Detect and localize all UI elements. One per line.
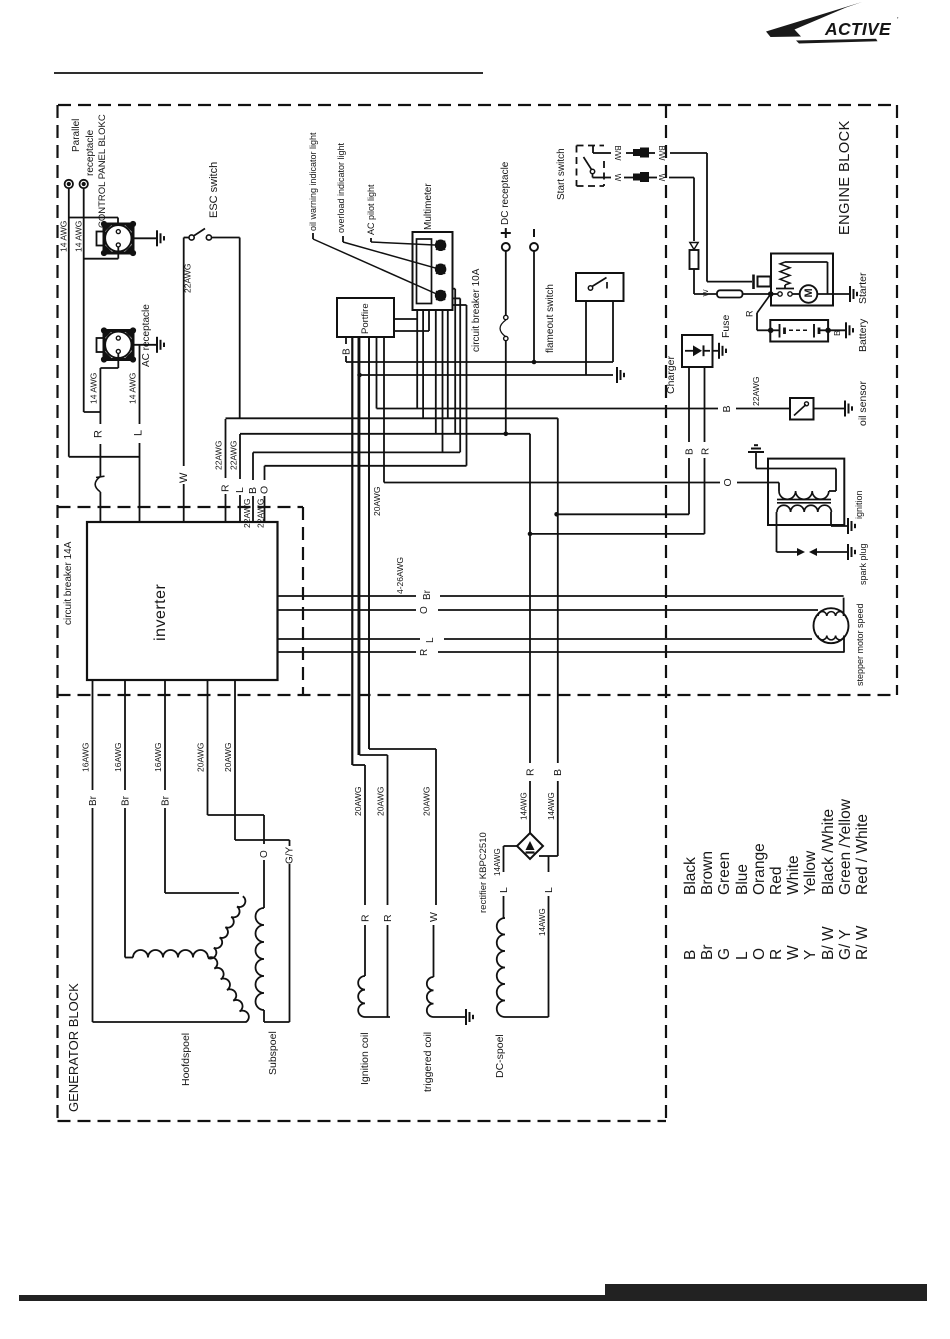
svg-text:B: B — [721, 405, 733, 412]
control panel block dashed outline (top edge) — [58, 104, 897, 106]
svg-text:Yellow: Yellow — [802, 850, 819, 895]
flameout right wire to bus362 — [612, 301, 614, 362]
relay coil bottom link — [784, 285, 786, 289]
wire gen R2 step — [387, 755, 389, 905]
wire B/W with connectors — [604, 152, 611, 154]
svg-text:22AWG: 22AWG — [256, 499, 266, 528]
parallel receptacle terminal 2 — [80, 180, 88, 188]
earth at bus375 end — [616, 367, 618, 383]
ESC switch blade — [194, 229, 206, 237]
svg-text:O: O — [259, 850, 270, 858]
wire W to engine — [647, 177, 657, 179]
receptacle 2 side tab — [97, 338, 105, 352]
svg-text:oil warning indicator light: oil warning indicator light — [308, 132, 318, 231]
ignition primary winding — [779, 491, 829, 499]
svg-text:G: G — [716, 948, 733, 960]
generator block bottom dashed edge — [58, 1120, 667, 1122]
triggered coil winding — [427, 977, 434, 1017]
svg-text:R: R — [419, 649, 430, 656]
wire B to rectifier — [557, 418, 559, 763]
junction portfire wire3 bus375 — [357, 373, 362, 378]
wire B/W down to solenoid — [706, 153, 708, 282]
svg-text:B: B — [832, 330, 842, 336]
receptacle 1 bottom pin wire to terminal2 net — [117, 247, 119, 259]
svg-text:B: B — [342, 348, 353, 355]
svg-text:Br: Br — [161, 795, 172, 806]
wire R to rectifier — [529, 434, 531, 763]
svg-text:B/ W: B/ W — [820, 926, 837, 960]
wire terminal2 jog to R net — [84, 411, 101, 413]
svg-text:L: L — [425, 637, 436, 643]
ignition box — [768, 459, 844, 525]
starter solenoid box — [758, 277, 771, 287]
resistor (W line) — [690, 250, 699, 269]
rectifier KBPC2510 diamond — [517, 833, 543, 859]
svg-text:B/W: B/W — [657, 145, 666, 161]
svg-text:W: W — [657, 174, 666, 182]
wire L 22AWG to inverter — [239, 434, 241, 479]
multimeter LED 2 — [436, 264, 446, 274]
ground triggered coil — [465, 1009, 467, 1025]
svg-text:Green: Green — [716, 852, 733, 895]
svg-text:O: O — [722, 478, 734, 486]
wire R 22AWG to inverter — [225, 419, 227, 478]
svg-text:W: W — [428, 912, 440, 922]
svg-text:ACTIVE: ACTIVE — [824, 19, 892, 39]
leader overload — [342, 236, 344, 242]
wire R out y652 — [278, 651, 417, 653]
rectifier left arm 14AWG — [504, 845, 518, 847]
wire B/W to engine — [647, 152, 655, 154]
stepper motor circle — [814, 608, 849, 643]
svg-text:ignition: ignition — [854, 490, 864, 519]
svg-text:White: White — [785, 855, 802, 895]
hoofdspoel lower diagonal winding — [208, 957, 249, 1022]
svg-text:DC-spoel: DC-spoel — [494, 1034, 506, 1078]
wire1 bottom jog to L net — [69, 456, 140, 458]
starter relay box — [771, 254, 833, 306]
svg-text:AC receptacle: AC receptacle — [141, 304, 152, 367]
wire L vertical — [139, 345, 141, 424]
svg-text:Fuse: Fuse — [720, 314, 732, 338]
ignition coil left winding — [358, 976, 365, 1017]
svg-text:Portfire: Portfire — [360, 303, 371, 334]
oil sensor ground wire — [814, 408, 846, 410]
svg-text:20AWG: 20AWG — [196, 743, 206, 772]
wire gen R2 — [357, 337, 359, 755]
start switch blade — [584, 157, 592, 170]
svg-text:circuit breaker 14A: circuit breaker 14A — [63, 541, 74, 625]
ground battery — [845, 322, 847, 338]
junction DC- bus362 — [532, 360, 537, 365]
wire W down through resistor — [693, 178, 695, 242]
mm wire 429 — [428, 310, 430, 331]
engine block right dashed edge — [896, 105, 898, 695]
svg-text:Green /Yellow: Green /Yellow — [837, 798, 854, 895]
svg-text:G/Y: G/Y — [285, 846, 296, 864]
rectifier bottom arm to B — [539, 855, 549, 857]
wire DC+ to R link — [505, 341, 507, 434]
svg-text:flameout switch: flameout switch — [545, 284, 556, 353]
svg-text:22AWG: 22AWG — [242, 499, 252, 528]
junction DC+ on y434 — [504, 432, 509, 437]
footer thick bar — [605, 1284, 927, 1301]
battery cells — [771, 329, 780, 331]
svg-text:Blue: Blue — [734, 864, 751, 895]
svg-text:16AWG: 16AWG — [113, 743, 123, 772]
mm wire 436 — [435, 310, 437, 434]
wire B 22AWG to inverter — [252, 452, 254, 480]
portfire right link upper — [394, 318, 417, 320]
stepper wire corners — [843, 598, 845, 616]
ground at receptacle 2 — [156, 337, 158, 353]
ignition top wire — [756, 468, 836, 470]
footer thin bar — [19, 1295, 605, 1301]
svg-text:Black /White: Black /White — [820, 809, 837, 895]
svg-text:O: O — [259, 486, 271, 494]
ESC switch contacts — [189, 235, 194, 240]
circuit breaker 14A dashed box right — [302, 507, 304, 695]
wire net y434 (L link) — [240, 433, 530, 435]
wire R from starter node to battery — [757, 294, 771, 313]
wire DC- down — [533, 251, 535, 362]
svg-text:GENERATOR BLOCK: GENERATOR BLOCK — [66, 983, 81, 1112]
svg-text:B/W: B/W — [613, 145, 622, 161]
junction starter node — [768, 291, 774, 297]
svg-text:triggered coil: triggered coil — [422, 1032, 434, 1092]
start switch solid contact corner — [592, 146, 594, 154]
W feed line with fuse — [694, 293, 717, 295]
wire gen W — [368, 337, 370, 749]
svg-text:R: R — [768, 949, 785, 960]
battery terminals — [768, 328, 774, 334]
svg-text:Brown: Brown — [699, 851, 716, 895]
svg-text:rectifier KBPC2510: rectifier KBPC2510 — [478, 832, 489, 913]
svg-text:overload indicator light: overload indicator light — [336, 142, 346, 233]
ground ignition — [847, 518, 849, 534]
wire battery B to ground — [828, 329, 846, 331]
starter motor M — [800, 285, 818, 303]
svg-text:CONTROL PANEL BLOKC: CONTROL PANEL BLOKC — [97, 114, 108, 228]
svg-text:oil sensor: oil sensor — [857, 381, 869, 426]
svg-text:circuit breaker 10A: circuit breaker 10A — [471, 268, 482, 352]
svg-text:22AWG: 22AWG — [183, 264, 193, 293]
mm wire 442 — [442, 310, 444, 452]
receptacle 1 pin link to ground — [132, 237, 158, 239]
svg-text:DC receptacle: DC receptacle — [500, 161, 511, 225]
portfire right link lower — [394, 330, 429, 332]
svg-text:Br: Br — [422, 589, 433, 600]
svg-text:L: L — [734, 951, 751, 960]
wire ESC left (W) — [184, 237, 189, 239]
charger output R — [704, 367, 706, 442]
mm side wire 460 — [453, 297, 461, 299]
mm side wire 455 — [453, 288, 456, 290]
wire O 22AWG to inverter — [264, 466, 266, 480]
vertical dashed boundary x=666 — [665, 105, 667, 1121]
svg-text:14 AWG: 14 AWG — [74, 221, 84, 252]
svg-text:O: O — [751, 948, 768, 960]
wire L out y639 — [278, 638, 421, 640]
wire gen R1 — [351, 337, 353, 765]
circuit breaker 14A dashed box top — [58, 506, 304, 508]
svg-text:14AWG: 14AWG — [493, 848, 502, 876]
svg-text:4-26AWG: 4-26AWG — [395, 557, 405, 594]
wire ESC right — [212, 237, 240, 239]
svg-text:R: R — [382, 914, 394, 922]
wire gen W step — [435, 749, 437, 905]
svg-text:R: R — [701, 448, 712, 455]
flameout left wire to ground bus — [585, 301, 587, 375]
svg-text:inverter: inverter — [152, 583, 169, 641]
svg-text:20AWG: 20AWG — [353, 787, 363, 816]
leader AC pilot — [370, 238, 372, 242]
svg-text:14 AWG: 14 AWG — [59, 221, 69, 252]
charger ground — [713, 350, 720, 352]
svg-text:Charger: Charger — [665, 356, 677, 394]
svg-text:20AWG: 20AWG — [223, 743, 233, 772]
stepper upper winding — [818, 612, 844, 616]
svg-text:Ignition coil: Ignition coil — [359, 1032, 371, 1085]
svg-text:22AWG: 22AWG — [214, 441, 224, 470]
AC receptacle socket 2 — [104, 331, 133, 360]
svg-text:G/ Y: G/ Y — [837, 929, 854, 960]
svg-text:B: B — [247, 487, 259, 494]
svg-text:B: B — [685, 448, 696, 455]
subspoel winding — [256, 908, 264, 1010]
svg-text:R: R — [360, 914, 372, 922]
portfire pin wire 2 — [352, 337, 354, 765]
multimeter LED 3 — [436, 291, 446, 301]
wire terminal1 down — [68, 188, 70, 457]
svg-text:Red: Red — [768, 867, 785, 895]
multimeter inner rect — [417, 239, 432, 304]
mm side wire 466 — [453, 304, 467, 306]
header rule — [54, 72, 483, 74]
svg-text:Orange: Orange — [751, 843, 768, 895]
svg-text:O: O — [419, 606, 430, 614]
svg-text:M: M — [803, 288, 815, 297]
svg-text:Battery: Battery — [857, 318, 869, 352]
svg-text:L: L — [234, 487, 246, 493]
relay zigzag coil — [780, 262, 790, 285]
multimeter LED 1 — [436, 240, 446, 250]
svg-text:spark plug: spark plug — [858, 543, 868, 585]
svg-text:Y: Y — [802, 950, 819, 960]
wire net y418 (R link) — [226, 417, 558, 419]
spark plug wires — [776, 517, 778, 552]
portfire pin wire B — [345, 337, 347, 344]
svg-text:W: W — [785, 945, 802, 960]
wire net y466 (O link) — [265, 465, 467, 467]
svg-text:Br: Br — [699, 945, 716, 961]
ACTIVE logo swoosh — [766, 2, 862, 37]
svg-text:Hoofdspoel: Hoofdspoel — [180, 1033, 192, 1086]
oil sensor box — [790, 398, 814, 420]
wire Br out y596 — [278, 595, 417, 597]
svg-text:W: W — [178, 472, 190, 483]
portfire pin wire 6 — [383, 337, 385, 483]
parallel receptacle terminal 1 — [65, 180, 73, 188]
wire DC+ down — [505, 251, 507, 316]
svg-text:AC pilot light: AC pilot light — [366, 184, 376, 235]
wire O-line y482 (20AWG) — [384, 482, 720, 484]
receptacle 1 side tab — [97, 232, 105, 246]
inverter box — [87, 522, 278, 680]
svg-text:Start switch: Start switch — [556, 148, 567, 200]
flameout switch box — [576, 273, 624, 301]
svg-text:14 AWG: 14 AWG — [128, 373, 138, 404]
secondary ends — [776, 512, 778, 517]
Portfire box — [337, 298, 394, 337]
O line into primary — [778, 483, 780, 492]
ACTIVE logo text — [824, 19, 892, 39]
receptacle 2 ground wire — [132, 344, 158, 346]
svg-text:20AWG: 20AWG — [376, 787, 386, 816]
left dashed edge — [56, 105, 58, 1121]
ground spark plug — [847, 544, 849, 560]
wire B-line y408 to oil sensor — [377, 408, 719, 410]
wire R into inverter — [99, 492, 101, 522]
DC receptacle + terminal — [502, 243, 510, 251]
bus y362 — [346, 361, 613, 363]
svg-text:B: B — [552, 769, 564, 776]
svg-text:L: L — [133, 430, 145, 436]
circuit breaker 14A contact symbol — [95, 477, 100, 493]
wire Br1 16AWG — [92, 680, 94, 790]
svg-text:L: L — [498, 887, 510, 893]
svg-text:R: R — [93, 430, 105, 438]
svg-text:Black: Black — [682, 857, 699, 895]
svg-text:14AWG: 14AWG — [520, 792, 529, 820]
wire W with connectors — [604, 177, 611, 179]
svg-text:14AWG: 14AWG — [538, 908, 547, 936]
Charger box — [682, 335, 713, 367]
DC-spoel coil — [497, 918, 505, 1017]
portfire pin wire 4 — [368, 337, 370, 749]
svg-text:Starter: Starter — [857, 272, 869, 304]
svg-text:Subspoel: Subspoel — [267, 1031, 279, 1075]
fuse body — [717, 290, 743, 297]
Start switch dashed box — [577, 145, 605, 147]
wire R 14AWG down — [99, 368, 101, 424]
AC receptacle socket 1 — [104, 224, 133, 253]
wire terminal2 down — [83, 188, 85, 412]
svg-text:22AWG: 22AWG — [751, 377, 761, 406]
svg-text:16AWG: 16AWG — [153, 743, 163, 772]
svg-text:20AWG: 20AWG — [372, 487, 382, 516]
starter solenoid plunger — [752, 275, 755, 290]
svg-text:stepper motor speed: stepper motor speed — [855, 603, 865, 686]
receptacle 2 bottom pin wire (R net) — [117, 354, 119, 369]
mid horizontal dashed boundary y=695 — [58, 694, 898, 696]
bus y375 (ground bus) — [360, 374, 614, 376]
relay contacts — [771, 293, 778, 295]
wire O 20AWG to subspoel — [207, 680, 209, 815]
wire Br2 16AWG — [124, 680, 126, 790]
wire net y452 (B link) — [253, 451, 460, 453]
svg-text:Parallel: Parallel — [71, 119, 82, 152]
ignition secondary winding — [777, 505, 831, 512]
mm wire 448 — [447, 310, 449, 418]
svg-text:L: L — [543, 887, 555, 893]
ground at receptacle 1 — [156, 230, 158, 246]
battery box — [770, 320, 828, 342]
svg-text:W: W — [613, 174, 622, 182]
resistor arrow — [690, 243, 698, 250]
mm wire 423 — [422, 310, 424, 418]
ignition earth top — [755, 452, 757, 469]
wire gen R1 step — [364, 765, 366, 905]
rectifier diode mark — [526, 841, 535, 850]
flameout blade and contact — [588, 286, 592, 290]
svg-text:R: R — [220, 484, 232, 492]
svg-text:Multimeter: Multimeter — [423, 183, 434, 230]
portfire pin wire 5 — [376, 337, 378, 409]
svg-text:R: R — [525, 768, 537, 776]
svg-text:14 AWG: 14 AWG — [89, 373, 99, 404]
oil sensor contact — [794, 405, 806, 416]
svg-text:ESC switch: ESC switch — [208, 162, 220, 218]
svg-text:R/ W: R/ W — [854, 925, 871, 960]
mm wire 417 — [416, 310, 418, 409]
svg-text:20AWG: 20AWG — [422, 787, 432, 816]
relay coil top wire — [785, 261, 828, 263]
svg-text:Red / White: Red / White — [854, 814, 871, 895]
svg-text:14AWG: 14AWG — [547, 792, 556, 820]
portfire pin wire 3 — [359, 337, 361, 755]
minus sign — [533, 229, 535, 237]
svg-text:R: R — [745, 310, 755, 317]
charger diode — [685, 350, 693, 352]
stepper lower winding — [818, 636, 844, 640]
wire Br3 16AWG — [164, 680, 166, 790]
svg-text:ENGINE BLOCK: ENGINE BLOCK — [837, 120, 853, 235]
svg-text:B: B — [682, 950, 699, 960]
svg-text:16AWG: 16AWG — [81, 743, 91, 772]
svg-text:22AWG: 22AWG — [229, 441, 239, 470]
svg-text:Br: Br — [121, 795, 132, 806]
wire terminal1 to AC receptacle 1 top pin — [69, 217, 118, 219]
leader oil warning — [312, 233, 314, 239]
svg-text:receptacle: receptacle — [85, 129, 96, 176]
Multimeter box — [413, 232, 453, 310]
relay contact bar — [776, 288, 794, 290]
hoofdspoel upper diagonal winding — [208, 896, 245, 958]
svg-text:Br: Br — [88, 795, 99, 806]
ignition core — [777, 499, 831, 501]
wire O out y610 — [278, 609, 417, 611]
ground starter — [849, 286, 851, 302]
wire G/Y 20AWG to subspoel — [234, 680, 236, 840]
hoofdspoel horizontal winding — [133, 950, 208, 958]
circuit breaker 10A symbol — [504, 315, 508, 319]
plus sign — [505, 228, 507, 238]
DC receptacle - terminal — [530, 243, 538, 251]
svg-text:W: W — [701, 289, 710, 297]
charger output B — [688, 367, 690, 442]
